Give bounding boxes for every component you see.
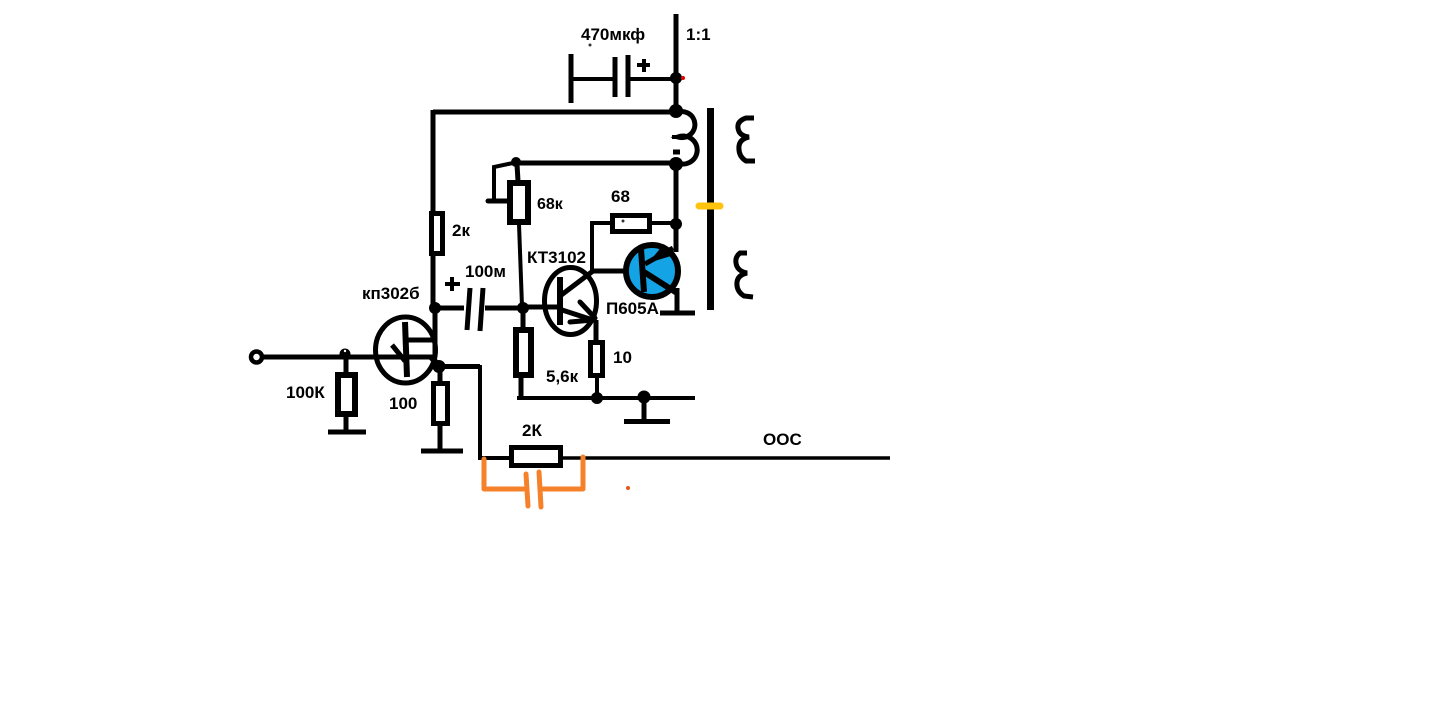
node primary bottom [669,157,683,171]
yellow gap marker [699,203,720,210]
wire collector corner [590,222,628,271]
wire emitter П605А [675,288,680,313]
wire 68к hook [488,163,513,201]
node input junction [340,349,351,360]
node E [638,391,651,404]
capacitor C3 feedback (orange) [484,457,583,507]
svg-text:2К: 2К [522,421,542,440]
svg-text:5,6к: 5,6к [546,367,579,386]
artifact dots [589,44,592,47]
node B base junction [517,302,529,314]
resistor R3 5,6к [516,308,531,398]
node source junction [433,360,446,373]
capacitor C1 470мкф [571,54,676,103]
node primary top [669,104,683,118]
wire base KT3102 [523,305,558,310]
ground GND3 [421,449,463,454]
resistor R4 68к [510,164,528,306]
node C rail 68 [670,218,682,230]
svg-text:68: 68 [611,187,630,206]
svg-text:КТ3102: КТ3102 [527,248,586,267]
capacitor C2 100м [439,277,520,331]
resistor R5 68 [590,216,674,232]
resistor R2 2к [432,214,443,309]
resistor R7 100 [434,368,448,451]
resistor R6 10 [591,343,603,399]
transistor VT2 КТ3102 [545,268,597,335]
node D [591,392,603,404]
svg-text:1:1: 1:1 [686,25,711,44]
node 68к top [511,157,521,167]
wire ООС [563,456,890,460]
ground GND1 [328,430,366,435]
svg-text:ООС: ООС [763,430,802,449]
wire base П605А [624,269,642,274]
svg-text:100К: 100К [286,383,325,402]
wire rail through П605А [674,163,679,252]
wire left rail upper [431,110,436,212]
node A drain junction [429,302,441,314]
wire supply top [433,110,676,115]
svg-text:10: 10 [613,348,632,367]
wire input line [261,355,436,360]
node cap junction [670,72,682,84]
input terminal [251,352,262,363]
transformer T1 core [707,108,714,310]
svg-text:П605А: П605А [606,299,659,318]
svg-text:100: 100 [389,394,417,413]
transformer T1 secondary winding top [738,118,755,161]
transistor VT1 кп302б [376,317,441,383]
wire mid rail [512,161,676,166]
transformer T1 secondary winding bottom [736,253,753,297]
emitter terminal П605А [660,311,695,316]
svg-text:2к: 2к [452,221,470,240]
wire emitter stub KT3102 [594,320,599,342]
wire feedback [439,365,509,458]
svg-text:470мкф: 470мкф [581,25,645,44]
ground GND2 [624,397,670,422]
svg-text:68к: 68к [537,196,564,213]
resistor R8 2К [512,448,561,466]
svg-text:кп302б: кп302б [362,284,420,303]
svg-text:100м: 100м [465,262,506,281]
transformer T1 primary winding [672,112,697,164]
transistor VT3 П605А [626,244,678,297]
resistor R1 100K [338,357,355,432]
wire bottom emitter [517,396,695,400]
wire drain up [433,307,438,356]
wire rail top [674,14,679,113]
